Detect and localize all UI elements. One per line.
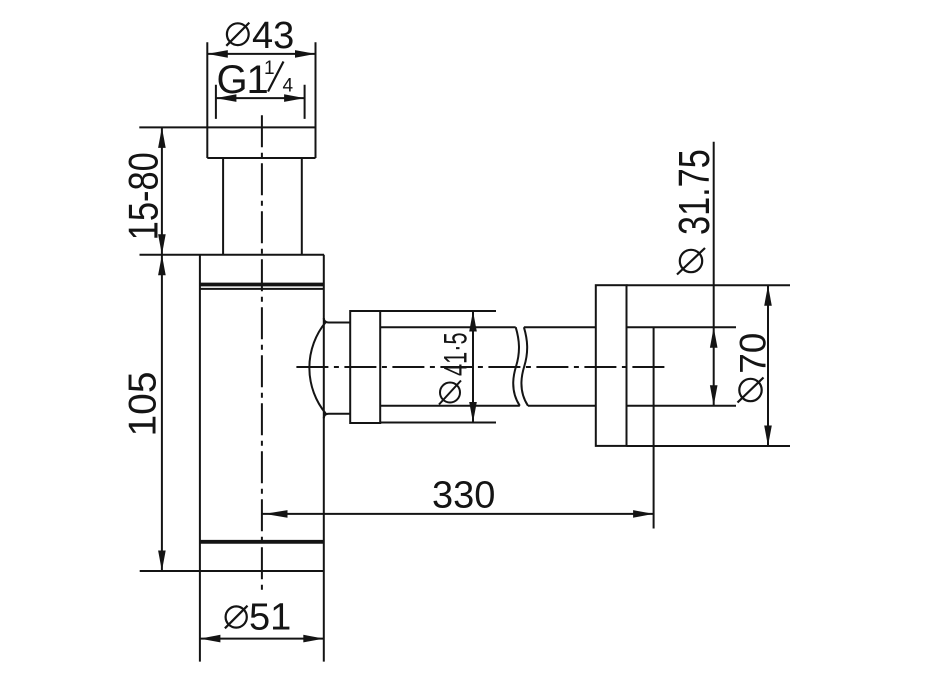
horizontal centerline <box>296 366 667 368</box>
label phi41.5 rotated <box>437 332 473 376</box>
vertical centerline <box>261 115 263 590</box>
svg-text:105: 105 <box>122 371 165 436</box>
label phi51 <box>225 597 291 639</box>
inlet tube walls <box>223 158 302 255</box>
coupling nut <box>350 311 380 423</box>
dim line phi41.5 <box>472 311 474 423</box>
nut extension lines (phi41.5) <box>380 311 496 423</box>
arrows phi51 <box>200 635 221 643</box>
body lower seam thick <box>200 540 324 544</box>
G1/4 ticks <box>216 85 305 119</box>
extension line bottom (105 lower / body bottom seam) <box>140 570 324 572</box>
outlet dome <box>309 318 350 418</box>
arrows 105 <box>158 255 166 275</box>
body upper seam thin <box>200 288 324 290</box>
pipe bottom line <box>380 405 736 407</box>
label 15-80 rotated <box>120 152 167 240</box>
svg-text:31.75: 31.75 <box>670 149 719 235</box>
extension line mid (body top) <box>140 254 325 256</box>
svg-text:51: 51 <box>249 597 291 639</box>
dim line G1 1/4 <box>216 97 305 99</box>
arrows phi43 <box>207 50 228 58</box>
body upper seam thick <box>200 283 324 287</box>
top flange of inlet tube <box>207 42 315 158</box>
svg-text:43: 43 <box>252 15 294 57</box>
pipe break squiggle <box>513 327 528 406</box>
arrows phi31.75 <box>710 327 718 348</box>
symbol phi of 70 <box>739 379 761 401</box>
svg-text:41·5: 41·5 <box>437 332 473 376</box>
left dimension line (15-80 and 105) <box>161 127 163 571</box>
arrows phi41.5 <box>469 311 477 332</box>
svg-text:330: 330 <box>432 475 495 517</box>
wall flange <box>596 285 627 446</box>
330 extension line <box>653 327 655 528</box>
svg-text:4: 4 <box>283 76 294 97</box>
pipe top line <box>380 326 736 328</box>
dim line phi51 <box>200 638 324 640</box>
svg-text:70: 70 <box>733 333 774 374</box>
symbol phi of 31.75 <box>680 250 702 272</box>
arrows 330 <box>265 510 288 518</box>
extension line top (15-80 upper / flange top) <box>139 126 315 128</box>
dim line phi31.75 <box>713 142 715 406</box>
label 105 rotated <box>122 371 165 436</box>
arrows G1 1/4 <box>216 94 237 102</box>
label phi43 <box>226 15 294 57</box>
label phi70 rotated <box>733 333 774 374</box>
arrows phi70 <box>764 285 772 306</box>
body walls <box>200 255 324 662</box>
svg-text:G1: G1 <box>217 58 269 102</box>
symbol phi of 41.5 <box>440 383 460 403</box>
svg-text:15-80: 15-80 <box>120 152 167 240</box>
arrows 15-80 <box>158 127 166 147</box>
dim line phi43 <box>207 53 315 55</box>
flange extension lines (phi70) <box>627 285 791 446</box>
dim line 330 <box>262 513 654 515</box>
dim line phi70 <box>767 285 769 446</box>
svg-text:1: 1 <box>264 58 275 79</box>
label phi31.75 rotated <box>670 149 719 235</box>
